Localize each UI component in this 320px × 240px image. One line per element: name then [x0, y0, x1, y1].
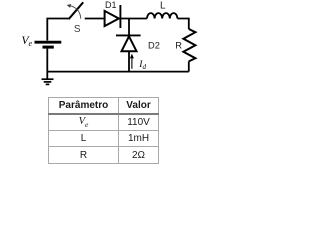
wire: D1 cathode to inductor — [120, 18, 147, 20]
svg-text:D2: D2 — [148, 41, 160, 51]
wire: bottom rail — [47, 71, 189, 73]
battery Ve positive plate — [35, 41, 62, 44]
diode D2 cathode bar — [116, 34, 141, 36]
battery Ve negative plate — [43, 46, 54, 49]
svg-text:R: R — [175, 40, 182, 50]
ground bar 2 — [44, 81, 52, 83]
diode D1 triangle — [105, 11, 119, 26]
current arrow Id — [131, 57, 133, 69]
wire: inductor to top-right corner — [177, 19, 188, 30]
wire: node down to D2 cathode — [128, 19, 130, 35]
wire: resistor to bottom rail — [188, 61, 190, 71]
svg-text:Id: Id — [138, 60, 146, 71]
svg-text:Ve: Ve — [22, 35, 33, 48]
wire: switch right contact to D1 anode — [85, 18, 105, 20]
switch S motion arc arrow — [70, 6, 81, 19]
inductor L coil — [147, 13, 177, 18]
parameter table — [48, 97, 159, 164]
switch S blade — [69, 2, 84, 19]
diode D1 cathode bar — [119, 5, 121, 28]
svg-text:S: S — [74, 24, 81, 35]
diode D2 triangle — [122, 36, 137, 51]
wire: D2 anode down to bottom rail — [128, 51, 130, 71]
wire: battery positive up to top-left corner and across to switch — [47, 19, 68, 41]
ground bar 1 — [42, 78, 54, 80]
wire: battery negative down to ground node — [46, 49, 48, 72]
svg-text:L: L — [160, 0, 166, 11]
svg-text:D1: D1 — [105, 0, 117, 10]
ground stem — [46, 72, 48, 79]
resistor R zigzag — [183, 29, 195, 61]
ground bar 3 — [46, 83, 50, 85]
